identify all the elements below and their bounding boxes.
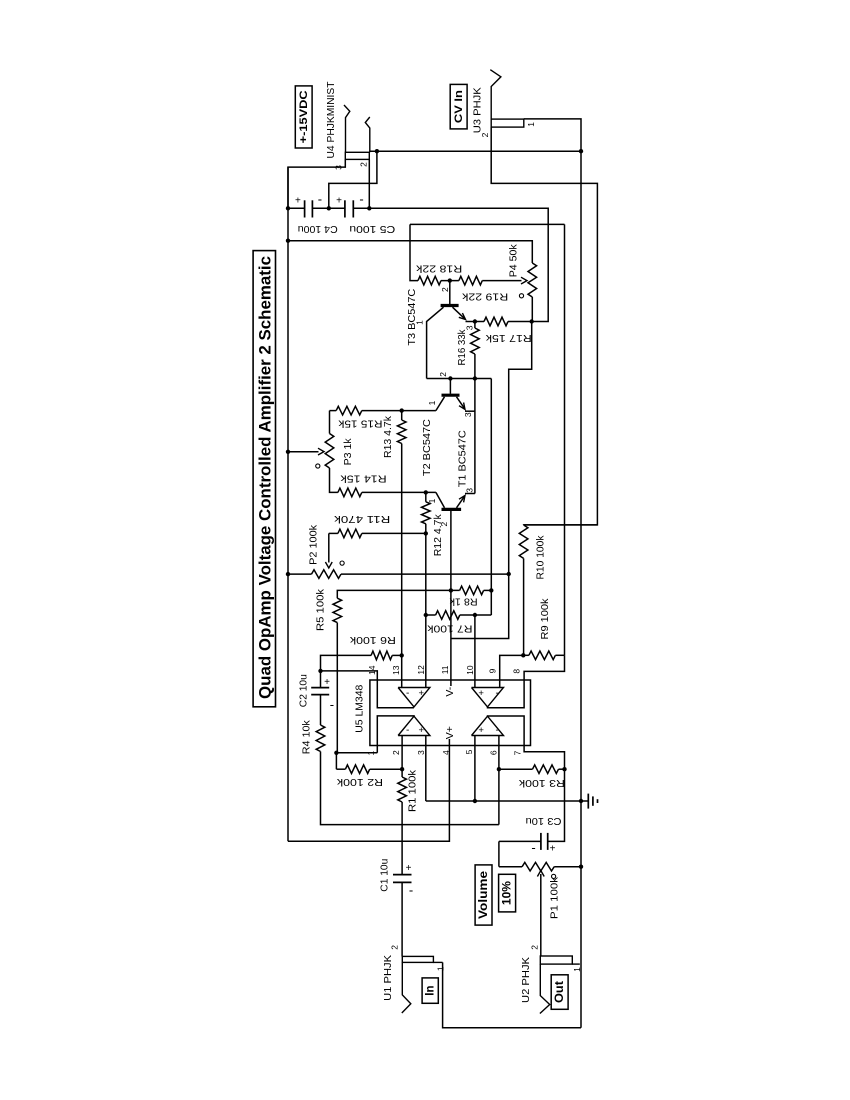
potentiometer P2 ccw mark — [340, 561, 344, 565]
svg-text:3: 3 — [463, 412, 473, 417]
resistor R19 value — [461, 290, 508, 302]
wire pin 1 row — [336, 753, 377, 769]
wire T3 collector row — [427, 378, 492, 380]
transistor T3 collector — [427, 307, 444, 378]
wire R6 right lead — [392, 654, 402, 656]
potentiometer P3 — [325, 434, 334, 469]
svg-text:+: + — [419, 688, 425, 699]
wire feedback rail right — [564, 224, 566, 655]
svg-text:1: 1 — [427, 400, 437, 405]
transistor T2 refdes — [421, 419, 433, 476]
wire emitter rail — [474, 379, 476, 494]
svg-text:V-: V- — [444, 686, 456, 696]
op-amp B minus label — [406, 725, 409, 736]
op-amp A minus label — [406, 688, 409, 699]
svg-text:-: - — [496, 725, 499, 736]
svg-text:3: 3 — [464, 488, 474, 493]
resistor R12 value — [432, 514, 444, 557]
node V- P4 junction — [530, 319, 534, 323]
op-amp U5 section C — [472, 716, 504, 735]
svg-text:-: - — [496, 688, 499, 699]
resistor R6 value — [349, 634, 396, 646]
wire amp D output pin 8 — [488, 655, 565, 707]
svg-text:R13 4.7k: R13 4.7k — [382, 415, 394, 458]
potentiometer P4 wiper arrow — [521, 277, 527, 284]
wire R1 top lead — [401, 769, 403, 777]
wire R17 right lead — [508, 321, 532, 323]
jack U3 pin 1 label — [526, 122, 536, 127]
transistor T1 collector — [436, 492, 445, 507]
op-amp pin 11 label — [440, 665, 450, 674]
potentiometer P1 wiper — [540, 874, 542, 956]
wire R12 top lead — [425, 492, 427, 501]
jack U4 tip contact — [344, 105, 350, 152]
wire R6 left lead — [321, 655, 372, 671]
node T1 base row B junction — [449, 588, 453, 592]
transistor T1 refdes — [456, 430, 468, 487]
capacitor C1 plus — [406, 863, 412, 874]
resistor R17 — [484, 317, 508, 326]
op-amp pin 14 label — [367, 665, 377, 675]
wire R8 right lead — [484, 589, 492, 591]
transistor T1 pin 1 label — [427, 498, 437, 503]
potentiometer P1 wiper arrow — [537, 871, 544, 877]
capacitor C1 minus — [409, 883, 413, 898]
wire C5 to V- corner — [353, 208, 548, 321]
op-amp pin 8 label — [511, 669, 521, 674]
potentiometer P2 value — [308, 524, 320, 565]
label Volume text — [478, 871, 490, 919]
node R13 top junction — [400, 408, 404, 412]
transistor T2 collector — [436, 397, 445, 411]
svg-text:U2 PHJK: U2 PHJK — [520, 957, 532, 1003]
svg-text:T3 BC547C: T3 BC547C — [406, 288, 418, 345]
op-amp A plus label — [419, 688, 425, 699]
wire R3 right lead — [559, 768, 565, 770]
svg-text:+: + — [478, 725, 484, 736]
transistor T3 refdes — [406, 288, 418, 345]
svg-text:R18 22k: R18 22k — [415, 263, 462, 275]
wire R11 right lead — [362, 532, 426, 534]
wire pin 10 stub — [474, 615, 476, 688]
op-amp C minus label — [496, 725, 499, 736]
capacitor C1 — [393, 875, 412, 883]
node R12 top junction — [424, 490, 428, 494]
transistor T1 pin 2 label — [439, 522, 449, 527]
svg-text:2: 2 — [390, 945, 400, 950]
svg-text:13: 13 — [391, 665, 401, 675]
capacitor C5 plus — [336, 196, 342, 207]
wire P2 wiper to R11 — [329, 532, 338, 534]
node ground rail junction — [579, 799, 583, 803]
svg-text:12: 12 — [416, 665, 426, 675]
svg-text:R16 33k: R16 33k — [456, 329, 468, 366]
svg-text:R14 15k: R14 15k — [340, 473, 387, 485]
wire V- jog — [451, 322, 532, 639]
svg-text:Volume: Volume — [478, 871, 490, 919]
wire R13 rail to pin13 — [401, 444, 403, 688]
resistor R18 value — [415, 263, 462, 275]
resistor R15 value — [338, 417, 383, 429]
node pin5 ground junction — [473, 799, 477, 803]
svg-text:R3 100k: R3 100k — [518, 777, 565, 789]
transistor T3 emitter — [453, 307, 466, 319]
op-amp pin 12 label — [416, 665, 426, 675]
wire R4 to pin6 row — [321, 752, 499, 825]
wire R3 left lead — [499, 768, 533, 770]
transistor T1 pin 3 label — [464, 488, 474, 493]
node R13 R6 junction — [400, 653, 404, 657]
transistor T2 bar — [442, 394, 460, 397]
svg-text:+: + — [550, 844, 556, 855]
svg-text:R9 100k: R9 100k — [539, 598, 551, 640]
resistor R6 — [371, 651, 392, 660]
svg-text:1: 1 — [572, 967, 582, 972]
svg-text:U1 PHJK: U1 PHJK — [382, 955, 394, 1001]
node V- P2 junction — [507, 572, 511, 576]
resistor R4 — [316, 725, 325, 752]
svg-text:P4 50k: P4 50k — [508, 244, 520, 278]
node emitter rail junction — [473, 376, 477, 380]
capacitor C5 — [345, 200, 353, 217]
potentiometer P2 — [312, 570, 342, 579]
node T3 base junction — [448, 278, 452, 282]
potentiometer P3 value — [342, 438, 354, 466]
wire C2 top lead — [320, 671, 322, 688]
resistor R1 value — [406, 769, 418, 812]
jack U3 tip contact — [490, 70, 501, 119]
svg-text:T1 BC547C: T1 BC547C — [456, 430, 468, 487]
wire ground row — [426, 800, 589, 802]
jack U4 refdes — [325, 81, 337, 159]
capacitor C4 — [305, 200, 313, 217]
label +-15VDC box — [295, 86, 312, 148]
wire R16 top lead — [474, 322, 476, 329]
wire R2 right lead — [370, 768, 402, 770]
resistor R14 — [338, 488, 362, 497]
jack U2 body — [540, 956, 572, 964]
op-amp D minus label — [496, 688, 499, 699]
resistor R12 — [422, 502, 431, 524]
wire R17 left lead — [475, 321, 484, 323]
potentiometer P3 bottom lead — [330, 468, 338, 492]
potentiometer P3 top lead — [329, 411, 331, 434]
jack U2 refdes — [520, 957, 532, 1003]
label CV In text — [453, 90, 465, 123]
capacitor C5 value — [349, 223, 395, 235]
resistor R10 value — [535, 535, 547, 580]
node R1 R2 junction — [400, 767, 404, 771]
resistor R16 — [471, 328, 480, 354]
svg-text:Out: Out — [554, 981, 566, 1003]
capacitor C3 minus — [531, 840, 535, 855]
node cap mid junction — [327, 206, 331, 210]
op-amp U5 box — [370, 680, 531, 746]
wire P4 bottom — [531, 297, 533, 322]
jack U2 pin 1 label — [572, 967, 582, 972]
op-amp pin 9 label — [487, 668, 497, 673]
capacitor C3 — [541, 833, 548, 850]
node pin10 junction — [473, 613, 477, 617]
resistor R13 value — [382, 415, 394, 458]
transistor T3 pin 1 label — [414, 320, 424, 325]
op-amp pin 13 label — [391, 665, 401, 675]
potentiometer P1 — [522, 862, 554, 871]
jack U1 pin 2 label — [390, 945, 400, 950]
wire R7 right lead — [460, 614, 492, 616]
svg-text:R7 100k: R7 100k — [427, 623, 473, 635]
wire pin 4 V+ rail — [288, 739, 449, 841]
node R3 C3 junction — [562, 767, 566, 771]
potentiometer P3 ccw mark — [316, 464, 320, 468]
svg-text:-: - — [531, 840, 535, 855]
node R12 R7 junction — [424, 613, 428, 617]
node U4 pin2 junction — [367, 206, 371, 210]
transistor T2 pin 2 label — [438, 372, 448, 377]
svg-text:14: 14 — [367, 665, 377, 675]
jack U1 pin 1 label — [436, 966, 446, 971]
capacitor C3 value — [525, 815, 561, 827]
transistor T1 emitter — [457, 496, 466, 508]
wire R13 top lead — [401, 411, 403, 420]
svg-text:+-15VDC: +-15VDC — [298, 90, 310, 143]
resistor R3 value — [518, 777, 565, 789]
svg-text:R19 22k: R19 22k — [461, 290, 508, 302]
wire T1 emitter to rail — [465, 493, 475, 495]
svg-text:C5 100u: C5 100u — [349, 223, 395, 235]
wire R19 to P4 wiper — [482, 280, 521, 282]
label +-15VDC text — [298, 90, 310, 143]
op-amp C plus label — [478, 725, 484, 736]
wire R1 to C1 — [401, 802, 403, 875]
wire pin 5 stub — [474, 736, 476, 802]
svg-text:R8 1k: R8 1k — [449, 596, 478, 608]
wire C2 bottom lead — [320, 695, 322, 725]
resistor R18 — [418, 276, 441, 285]
wire R2 left lead — [336, 768, 345, 770]
svg-text:2: 2 — [480, 132, 490, 137]
op-amp pin 3 label — [416, 750, 426, 755]
jack U1 refdes — [382, 955, 394, 1001]
svg-text:5: 5 — [464, 749, 474, 754]
op-amp U5 section D — [472, 688, 504, 707]
wire C1 to U1 — [401, 882, 403, 956]
node +15 at P4 wire — [286, 239, 290, 243]
node C2 junction — [318, 669, 322, 673]
label 10% box — [499, 874, 516, 912]
capacitor C2 — [311, 688, 329, 695]
wire ground from U4 to CV jack — [369, 150, 581, 152]
svg-text:9: 9 — [487, 668, 497, 673]
svg-text:2: 2 — [530, 945, 540, 950]
wire rail to R8 — [490, 379, 492, 616]
title text — [257, 256, 275, 699]
potentiometer P2 wiper — [328, 533, 330, 562]
label Volume box — [475, 865, 492, 925]
wire R5 top lead — [337, 590, 459, 598]
node +15 at P3 wiper — [286, 450, 290, 454]
svg-text:+: + — [478, 688, 484, 699]
node +15 at C4 — [286, 206, 290, 210]
wire R18 left lead — [410, 224, 418, 280]
wire U3 pin1 to ground rail — [524, 119, 581, 151]
svg-text:7: 7 — [513, 750, 523, 755]
wire ground rail — [580, 151, 582, 1028]
jack U2 tip contact — [540, 964, 550, 1013]
resistor R3 — [533, 765, 559, 774]
transistor T2 base lead — [449, 379, 451, 394]
resistor R11 value — [333, 513, 390, 525]
wire P2 right to V- — [341, 573, 509, 575]
svg-text:+: + — [419, 725, 425, 736]
capacitor C5 minus — [359, 191, 363, 206]
svg-text:R15 15k: R15 15k — [338, 417, 383, 429]
svg-text:+: + — [336, 196, 342, 207]
jack U1 body extension — [433, 961, 442, 963]
label In text — [425, 985, 437, 995]
node R5 pin1 junction — [334, 751, 338, 755]
potentiometer P4 — [528, 263, 537, 297]
svg-text:In: In — [425, 985, 437, 995]
jack U3 pin 2 label — [480, 132, 490, 137]
wire C3 right lead — [548, 769, 565, 841]
svg-text:C2 10u: C2 10u — [297, 674, 309, 707]
svg-text:-: - — [330, 697, 334, 712]
svg-text:10%: 10% — [502, 881, 514, 905]
svg-text:2: 2 — [358, 162, 368, 167]
svg-text:3: 3 — [416, 750, 426, 755]
wire R14 to T1 collector — [362, 491, 436, 493]
resistor R10 — [519, 525, 528, 558]
jack U4 body — [345, 152, 369, 159]
potentiometer P4 ccw mark — [519, 294, 523, 298]
wire amp C output pin 7 — [488, 716, 565, 769]
wire R15 left lead — [330, 410, 337, 412]
resistor R16 value — [456, 329, 468, 366]
transistor T3 base lead — [449, 281, 451, 304]
wire R9 right lead — [555, 654, 564, 656]
jack U1 body — [402, 956, 433, 962]
capacitor C1 value — [378, 859, 390, 892]
wire R5 bottom lead — [336, 623, 338, 753]
svg-text:2: 2 — [438, 372, 448, 377]
potentiometer P2 wiper arrow — [325, 562, 332, 568]
node ground branch — [375, 149, 379, 153]
svg-text:U5 LM348: U5 LM348 — [354, 685, 366, 733]
svg-text:1: 1 — [436, 966, 446, 971]
svg-text:Quad OpAmp Voltage Controlled: Quad OpAmp Voltage Controlled Amplifier … — [257, 256, 275, 699]
label In box — [422, 978, 438, 1003]
op-amp V+ label — [444, 726, 456, 739]
op-amp pin 6 label — [488, 750, 498, 755]
potentiometer P3 wiper arrow — [318, 448, 324, 455]
resistor R17 value — [485, 332, 532, 344]
wire pin6 to R4 row — [498, 769, 500, 824]
svg-text:1: 1 — [414, 320, 424, 325]
wire CV to R10 — [524, 524, 598, 526]
resistor R9 value — [539, 598, 551, 640]
op-amp pin 7 label — [513, 750, 523, 755]
transistor T2 pin 3 label — [463, 412, 473, 417]
potentiometer P4 value — [508, 244, 520, 278]
svg-text:-: - — [318, 191, 322, 206]
resistor R14 value — [340, 473, 387, 485]
wire U4 pin3 to +15 rail — [288, 159, 345, 208]
svg-text:R6 100k: R6 100k — [349, 634, 396, 646]
capacitor C4 minus — [318, 191, 322, 206]
wire pin 9 stub — [500, 655, 524, 687]
potentiometer P1 value — [548, 876, 560, 919]
svg-text:R4 10k: R4 10k — [300, 719, 312, 754]
op-amp V- label — [444, 686, 456, 696]
capacitor C2 plus — [324, 677, 330, 688]
wire cap row left — [288, 207, 305, 209]
label CV In box — [450, 84, 467, 128]
resistor R7 — [436, 611, 460, 620]
potentiometer P1 ccw mark — [552, 874, 556, 878]
wire ground branch to caps — [329, 151, 377, 208]
wire U4 pin2 down — [368, 159, 370, 208]
resistor R5 value — [314, 588, 326, 631]
node pin6 R3 junction — [497, 767, 501, 771]
ground symbol — [588, 794, 597, 809]
resistor R2 value — [336, 776, 383, 788]
op-amp D plus label — [478, 688, 484, 699]
op-amp B plus label — [419, 725, 425, 736]
resistor R19 — [459, 276, 482, 285]
wire P3 wiper from +15 — [288, 451, 319, 453]
wire C3 left lead — [499, 840, 541, 842]
resistor R1 — [398, 777, 407, 802]
wire pin 2 stub — [401, 736, 403, 770]
wire T3 emitter to node — [466, 321, 475, 323]
svg-text:U4 PHJKMINIST: U4 PHJKMINIST — [325, 81, 337, 159]
wire R9 left lead — [523, 654, 529, 656]
resistor R13 — [397, 420, 406, 444]
transistor T1 bar — [442, 508, 462, 511]
wire R10 bottom lead — [523, 558, 525, 655]
node P1 ground junction — [579, 865, 583, 869]
label Out box — [551, 975, 568, 1010]
svg-text:+: + — [295, 196, 301, 207]
wire R18 to T3 base — [441, 280, 459, 282]
title box — [253, 251, 275, 707]
capacitor C2 minus — [330, 697, 334, 712]
wire R15 to T2 collector — [362, 410, 436, 412]
svg-text:R17 15k: R17 15k — [485, 332, 532, 344]
wire R12 rail to pin12 — [425, 524, 427, 688]
jack U2 pin 2 label — [530, 945, 540, 950]
wire P1 right lead — [554, 866, 581, 868]
resistor R8 value — [449, 596, 478, 608]
wire P2 left lead — [288, 573, 312, 575]
wire feedback top — [410, 223, 565, 225]
wire R7 left lead — [426, 614, 436, 616]
label Out text — [554, 981, 566, 1003]
resistor R2 — [345, 765, 369, 774]
svg-text:R12 4.7k: R12 4.7k — [432, 514, 444, 557]
wire pin 3 stub — [425, 736, 427, 802]
jack U4 pin 3 label — [334, 165, 344, 170]
svg-text:10: 10 — [465, 665, 475, 675]
node T3 emitter junction — [473, 319, 477, 323]
wire U1 pin1 to ground — [443, 962, 581, 1027]
node rail R8 junction — [489, 588, 493, 592]
svg-text:V+: V+ — [444, 726, 456, 739]
op-amp U5 refdes — [354, 685, 366, 733]
resistor R5 — [333, 598, 342, 622]
svg-text:CV In: CV In — [453, 90, 465, 123]
